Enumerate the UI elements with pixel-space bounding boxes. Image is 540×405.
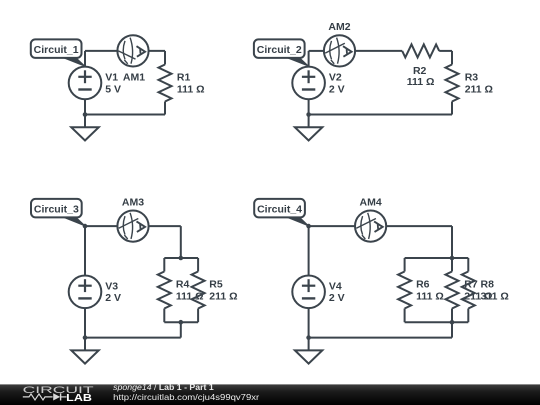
svg-text:R5: R5 [209, 279, 223, 291]
logo resistor zigzag [23, 394, 53, 400]
wire R7 top lead [451, 258, 453, 272]
junction C1 bottom node [83, 112, 88, 117]
svg-text:V3: V3 [105, 281, 118, 293]
junction C3 top node [83, 224, 88, 229]
ground C3 ground [84, 338, 86, 351]
ammeter AM3 [117, 211, 148, 242]
wire R2 to corner [439, 50, 452, 52]
wire R3 bottom lead [451, 102, 453, 115]
wire parallel bottom rail [405, 321, 469, 323]
svg-text:AM4: AM4 [360, 196, 382, 208]
wire V4 minus to bottom node [308, 308, 310, 338]
wire C3 top node down to V3 plus [84, 226, 86, 275]
svg-text:211 Ω: 211 Ω [209, 290, 237, 302]
resistor R3 [446, 65, 459, 102]
svg-text:R3: R3 [465, 72, 479, 84]
junction C3 parallel bottom node [179, 320, 184, 325]
wire parallel bottom to return [180, 322, 182, 337]
resistor R4 [158, 272, 171, 309]
wire AM3 to feed corner [149, 225, 181, 227]
junction C3 parallel top node [179, 256, 184, 261]
wire parallel bottom rail [164, 321, 198, 323]
svg-text:R4: R4 [176, 279, 190, 291]
svg-text:http://circuitlab.com/cju4s99q: http://circuitlab.com/cju4s99qv79xr [113, 392, 259, 402]
ground C1 ground [84, 115, 86, 128]
svg-text:V2: V2 [329, 72, 342, 84]
wire AM2 to R2 [355, 50, 402, 52]
node label callout Circuit_4 [284, 216, 309, 226]
wire V2 minus to bottom node [308, 99, 310, 114]
svg-text:AM3: AM3 [122, 196, 144, 208]
wire V1 minus to bottom node [84, 99, 86, 114]
svg-text:Circuit_3: Circuit_3 [34, 204, 79, 216]
wire parallel bottom to return [451, 322, 453, 337]
svg-text:V4: V4 [329, 281, 342, 293]
wire AM1 to R1 corner [149, 50, 165, 52]
junction C4 bottom node [306, 335, 311, 340]
wire C4 bottom return [309, 337, 452, 339]
voltage source V3 [69, 276, 102, 309]
node label callout Circuit_3 [60, 216, 85, 226]
wire R7 bottom lead [451, 309, 453, 323]
wire C4 top node to AM4 [309, 225, 355, 227]
svg-text:111 Ω: 111 Ω [177, 83, 205, 95]
wire R4 top lead [163, 258, 165, 272]
svg-text:LAB: LAB [66, 393, 92, 404]
voltage source V1 [69, 67, 102, 100]
wire feed down to parallel top node [180, 226, 182, 258]
wire parallel top rail [164, 257, 198, 259]
wire parallel top rail [405, 257, 469, 259]
wire R1 top lead [164, 51, 166, 65]
wire C3 bottom return [85, 337, 181, 339]
wire R4 bottom lead [163, 309, 165, 323]
wire V2 plus up to corner [308, 51, 310, 66]
svg-text:R8: R8 [481, 279, 495, 291]
ammeter AM2 [324, 35, 355, 66]
node label callout Circuit_1 [60, 56, 85, 66]
svg-text:2 V: 2 V [105, 292, 121, 304]
junction C4 parallel top node [450, 256, 455, 261]
wire V3 minus to bottom node [84, 308, 86, 338]
svg-text:Circuit_1: Circuit_1 [34, 44, 79, 56]
resistor R5 [192, 272, 205, 309]
wire C1 bottom return [85, 114, 165, 116]
wire C2 bottom return [309, 114, 452, 116]
wire R1 bottom lead [164, 102, 166, 115]
svg-text:sponge14 / Lab 1 - Part 1: sponge14 / Lab 1 - Part 1 [113, 382, 214, 392]
wire corner to AM2 [309, 50, 324, 52]
wire C3 top node to AM3 [85, 225, 117, 227]
svg-text:R6: R6 [416, 279, 430, 291]
footer bar [0, 384, 540, 405]
svg-text:R2: R2 [413, 65, 427, 77]
svg-text:311 Ω: 311 Ω [481, 290, 509, 302]
svg-text:AM1: AM1 [123, 72, 145, 84]
svg-text:211 Ω: 211 Ω [465, 83, 493, 95]
circuit 2 [254, 21, 493, 140]
svg-text:111 Ω: 111 Ω [416, 290, 444, 302]
svg-text:111 Ω: 111 Ω [407, 76, 435, 88]
ammeter AM1 [117, 35, 148, 66]
svg-text:5 V: 5 V [105, 83, 121, 95]
wire C1 corner down to V1 plus [84, 51, 86, 67]
junction C4 parallel bottom node [450, 320, 455, 325]
wire C1 top node to AM1 [85, 50, 117, 52]
circuit 1 [31, 35, 205, 140]
wire R6 bottom lead [404, 309, 406, 323]
svg-text:Circuit_4: Circuit_4 [257, 204, 302, 216]
svg-text:2 V: 2 V [329, 292, 345, 304]
svg-text:Circuit_2: Circuit_2 [257, 44, 302, 56]
wire C4 top node down to V4 plus [308, 226, 310, 275]
wire feed down to parallel top node [451, 226, 453, 258]
logo diode [53, 393, 60, 400]
ammeter AM4 [355, 211, 386, 242]
ground C2 ground [308, 115, 310, 128]
node label callout Circuit_2 [284, 56, 309, 66]
junction C3 bottom node [83, 335, 88, 340]
svg-text:2 V: 2 V [329, 83, 345, 95]
junction C2 bottom node [306, 112, 311, 117]
wire R5 top lead [197, 258, 199, 272]
resistor R1 [159, 65, 172, 102]
voltage source V2 [292, 67, 325, 100]
junction C4 top node [306, 224, 311, 229]
wire R5 bottom lead [197, 309, 199, 323]
svg-text:AM2: AM2 [328, 21, 350, 33]
resistor R7 [446, 272, 459, 309]
wire R3 top lead [451, 51, 453, 65]
circuit 3 [31, 196, 238, 363]
svg-text:R1: R1 [177, 72, 191, 84]
circuit 4 [254, 196, 509, 363]
resistor R6 [398, 272, 411, 309]
wire AM4 to feed corner [386, 225, 452, 227]
svg-text:V1: V1 [105, 72, 118, 84]
ground C4 ground [308, 338, 310, 351]
resistor R2 [402, 44, 439, 57]
wire R8 top lead [467, 258, 469, 272]
wire R6 top lead [404, 258, 406, 272]
wire R8 bottom lead [467, 309, 469, 323]
resistor R8 [462, 272, 475, 309]
voltage source V4 [292, 276, 325, 309]
